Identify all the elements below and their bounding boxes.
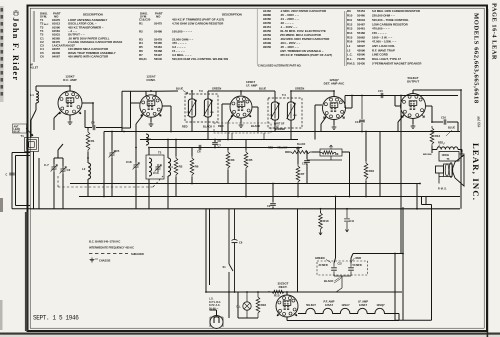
label BLACK T4 bbox=[297, 143, 306, 146]
svg-text:C16: C16 bbox=[441, 116, 446, 120]
svg-text:R16: R16 bbox=[369, 169, 375, 173]
svg-text:90056: 90056 bbox=[263, 45, 271, 49]
svg-text:100,000 – – –: 100,000 – – – – bbox=[172, 29, 192, 33]
resistor R2 bbox=[174, 140, 183, 197]
svg-text:MODELS 662,663,665,6618: MODELS 662,663,665,6618 bbox=[473, 13, 480, 104]
resistor R1 bbox=[86, 128, 95, 159]
heater labels bbox=[306, 299, 385, 307]
svg-text:T.3: T.3 bbox=[199, 89, 203, 93]
tube V3 12SK7 I.F. AMP bbox=[230, 80, 257, 118]
wave trap coil L2 bbox=[82, 158, 91, 197]
svg-text:YELLOW: YELLOW bbox=[277, 147, 288, 150]
left page edge strip bbox=[0, 6, 4, 330]
wire avc bus y184 bbox=[70, 183, 420, 185]
legend band bbox=[89, 240, 144, 263]
svg-text:C15: C15 bbox=[378, 89, 383, 93]
label part of IF trimmer bbox=[274, 123, 285, 132]
label line voltage bbox=[209, 298, 221, 311]
wire bus y147 bbox=[150, 147, 302, 149]
electrolytic dashed box C22 C23 bbox=[315, 256, 368, 283]
svg-text:CONV.: CONV. bbox=[146, 78, 155, 82]
IF transformer T3 dashed box bbox=[185, 89, 218, 122]
label BLUE T4 bbox=[241, 87, 275, 92]
date stamp bbox=[33, 314, 79, 321]
oscillator trimmer C18 bbox=[126, 148, 139, 209]
svg-text:BLACK: BLACK bbox=[203, 125, 212, 129]
svg-text:12SA7: 12SA7 bbox=[325, 303, 334, 307]
coil L3 bbox=[146, 134, 151, 145]
svg-text:R13: R13 bbox=[435, 134, 441, 138]
svg-text:GREEN: GREEN bbox=[212, 87, 221, 91]
svg-text:TRIMMER: TRIMMER bbox=[274, 128, 285, 131]
svg-text:4,700 OHM 1/2W CARBON RESIST: 4,700 OHM 1/2W CARBON RESISTOR bbox=[172, 21, 224, 25]
wire grid v1 bbox=[54, 144, 63, 158]
svg-text:DESCRIPTION: DESCRIPTION bbox=[83, 13, 103, 17]
oscillator transformer T2 bbox=[146, 148, 164, 209]
wire bus y132 bbox=[104, 131, 460, 133]
svg-text:C14: C14 bbox=[355, 120, 360, 124]
svg-text:R2: R2 bbox=[139, 29, 143, 33]
svg-text:55486: 55486 bbox=[154, 29, 162, 33]
svg-text:RED: RED bbox=[438, 142, 443, 145]
right margin: PAGE 16-4 LEAR bbox=[491, 3, 498, 60]
svg-text:R8,21: R8,21 bbox=[139, 57, 147, 61]
harness dashed box bbox=[214, 123, 271, 140]
svg-text:L1: L1 bbox=[31, 93, 35, 97]
svg-text:55475: 55475 bbox=[154, 21, 162, 25]
chassis bus bbox=[30, 208, 460, 210]
svg-text:R6: R6 bbox=[195, 165, 199, 169]
svg-text:C5: C5 bbox=[116, 149, 120, 153]
svg-text:R15: R15 bbox=[274, 294, 280, 298]
svg-text:R2: R2 bbox=[179, 165, 183, 169]
volume control R8 bbox=[307, 145, 350, 197]
output transformer T5 bbox=[423, 142, 464, 162]
wire v4 pins bbox=[315, 91, 352, 140]
resistor R6 bbox=[190, 148, 199, 184]
wire risers mid-right bbox=[345, 96, 352, 109]
coil L1 bbox=[31, 86, 39, 110]
wire long risers x395 x403 bbox=[395, 96, 403, 321]
capacitor C15 bbox=[378, 89, 383, 98]
wire top rail det-output bbox=[345, 95, 458, 97]
svg-text:NO: NO bbox=[156, 15, 161, 19]
wire antenna left drop bbox=[38, 158, 40, 209]
svg-text:RED: RED bbox=[356, 256, 362, 260]
wire v1 pins bbox=[36, 86, 93, 130]
label BLACK T3 bbox=[203, 125, 212, 129]
svg-text:T2: T2 bbox=[158, 151, 162, 155]
svg-text:L2: L2 bbox=[82, 167, 86, 171]
svg-text:C9: C9 bbox=[267, 204, 271, 208]
svg-text:GREEN: GREEN bbox=[315, 256, 325, 260]
svg-text:ALLET: ALLET bbox=[30, 67, 39, 70]
label RED T3 bbox=[182, 125, 188, 129]
svg-text:RED: RED bbox=[218, 124, 224, 128]
speaker P.M.S. bbox=[436, 155, 465, 191]
tube V1 12SK7 R.F. AMP bbox=[58, 74, 82, 115]
resistor R3 bbox=[226, 148, 235, 184]
AC line pair bbox=[206, 209, 210, 292]
right margin: LEAR, INC. bbox=[471, 143, 481, 201]
svg-text:5″PERMANENT MAGNET SPEAKER: 5″PERMANENT MAGNET SPEAKER bbox=[372, 61, 422, 65]
svg-text:D.L.: D.L. bbox=[237, 306, 242, 309]
svg-text:INTERMEDIATE FREQUENCY 455 K: INTERMEDIATE FREQUENCY 455 KC bbox=[89, 246, 134, 250]
svg-text:56040: 56040 bbox=[154, 57, 162, 61]
svg-text:R1: R1 bbox=[91, 139, 95, 143]
resistor R15 bbox=[268, 290, 286, 297]
svg-text:C6: C6 bbox=[40, 55, 44, 59]
power plug bbox=[210, 316, 223, 329]
wire b- loop right bbox=[395, 197, 432, 321]
svg-text:2 GANG VARIABLE CAPACITOR W/AD: 2 GANG VARIABLE CAPACITOR W/ADJ bbox=[68, 40, 123, 44]
wire left exit loop bbox=[12, 153, 30, 209]
variable capacitor C1 bbox=[44, 158, 57, 209]
T3 secondary coil bbox=[204, 91, 213, 140]
loop antenna T1 bbox=[21, 110, 39, 209]
parts list table bbox=[30, 9, 422, 70]
svg-text:C7: C7 bbox=[218, 144, 222, 148]
svg-text:BLACK: BLACK bbox=[251, 124, 260, 128]
svg-text:*C INCLUDED ALTERNATE PART NO.: *C INCLUDED ALTERNATE PART NO. bbox=[257, 65, 302, 68]
dashed gang line bbox=[58, 176, 163, 187]
svg-text:R10: R10 bbox=[323, 219, 329, 223]
resistor R10 below bus bbox=[319, 209, 329, 235]
T4 primary coil bbox=[271, 91, 280, 132]
svg-text:I.F. AMP: I.F. AMP bbox=[246, 83, 257, 87]
svg-text:P.F. AMP: P.F. AMP bbox=[324, 299, 335, 303]
capacitor C9 bbox=[267, 184, 276, 209]
svg-text:BROWN: BROWN bbox=[423, 154, 432, 156]
tube V6 rectifier socket bbox=[276, 292, 298, 321]
wire right risers bbox=[380, 132, 417, 209]
svg-text:R16: R16 bbox=[261, 303, 267, 307]
svg-text:C4: C4 bbox=[91, 121, 95, 125]
capacitor C8 bbox=[212, 139, 221, 148]
svg-text:I.F. AMP: I.F. AMP bbox=[358, 299, 368, 303]
resistor R13 bbox=[430, 126, 440, 146]
right page rule bbox=[487, 9, 489, 337]
label GREEN T4 bbox=[291, 87, 334, 97]
svg-text:B.C. BAND 540−1750 KC: B.C. BAND 540−1750 KC bbox=[89, 240, 120, 244]
svg-text:12SK7: 12SK7 bbox=[359, 303, 368, 307]
svg-text:455 KC IF TRIMMERS (PART OF A1: 455 KC IF TRIMMERS (PART OF A127) bbox=[280, 53, 332, 57]
svg-text:P.M.S.: P.M.S. bbox=[347, 61, 355, 65]
svg-text:30 MFD: 30 MFD bbox=[319, 263, 328, 267]
svg-text:R5: R5 bbox=[249, 158, 253, 162]
coil L4 bbox=[168, 140, 173, 209]
svg-text:BLUE: BLUE bbox=[259, 87, 266, 91]
svg-text:BLUE: BLUE bbox=[14, 131, 21, 134]
wire rectifier B+ riser bbox=[297, 209, 299, 292]
capacitor on left loop bbox=[6, 173, 15, 176]
svg-text:SHIELDED: SHIELDED bbox=[131, 252, 144, 256]
svg-text:BLACK: BLACK bbox=[324, 279, 333, 283]
svg-text:C11: C11 bbox=[350, 219, 355, 223]
T4 secondary coil bbox=[287, 91, 296, 140]
capacitor C16 bbox=[432, 116, 458, 132]
svg-text:T.4: T.4 bbox=[282, 93, 286, 97]
capacitor C14 bbox=[355, 96, 365, 132]
svg-text:50L6GT: 50L6GT bbox=[306, 303, 316, 307]
capacitor C4 bbox=[85, 110, 122, 132]
variable capacitor C2 bbox=[60, 158, 71, 209]
wire v5 pins bbox=[395, 90, 461, 209]
wire b+ bus y197 bbox=[79, 196, 460, 198]
svg-text:C2: C2 bbox=[67, 168, 71, 172]
grid cap C6 bbox=[197, 145, 201, 154]
wave trap trimmer C5 bbox=[109, 132, 120, 197]
svg-text:T1: T1 bbox=[21, 134, 25, 138]
resistor R16b bbox=[256, 292, 266, 318]
svg-text:C18: C18 bbox=[126, 160, 132, 164]
svg-text:C6: C6 bbox=[197, 150, 201, 154]
label RED YELLOW bbox=[268, 147, 288, 150]
heater chain bbox=[298, 308, 399, 313]
wire green T3 to V3 bbox=[208, 91, 241, 95]
capacitor C11 bbox=[344, 209, 354, 232]
svg-text:and 664: and 664 bbox=[477, 116, 481, 128]
label BLUE T3 bbox=[176, 87, 188, 94]
wire v3 pins bbox=[222, 104, 258, 140]
resistor R5 bbox=[244, 140, 253, 197]
power box wiring bbox=[206, 292, 402, 318]
svg-text:DESCRIPTION: DESCRIPTION bbox=[222, 13, 242, 17]
IF transformer T4 dashed box bbox=[268, 93, 302, 128]
svg-text:12SA7: 12SA7 bbox=[341, 303, 350, 307]
svg-text:RED: RED bbox=[268, 147, 273, 150]
svg-text:C-7: C-7 bbox=[44, 163, 49, 167]
resistor R7 bbox=[296, 148, 305, 197]
capacitor C10 bbox=[302, 152, 310, 184]
svg-text:R8: R8 bbox=[335, 152, 339, 156]
svg-text:ALC→: ALC→ bbox=[44, 23, 51, 26]
svg-text:RECT.: RECT. bbox=[279, 285, 288, 289]
svg-text:CHASSIS: CHASSIS bbox=[99, 259, 111, 263]
svg-text:53430: 53430 bbox=[357, 61, 365, 65]
svg-text:1000Ω: 1000Ω bbox=[442, 154, 449, 157]
label GREEN T3 bbox=[212, 87, 221, 91]
svg-text:SEPT. 1 5 1946: SEPT. 1 5 1946 bbox=[33, 314, 79, 321]
wire bus y140 bbox=[140, 139, 298, 141]
svg-text:BLUE: BLUE bbox=[176, 87, 183, 91]
svg-text:12SQ7: 12SQ7 bbox=[376, 303, 385, 307]
svg-text:OUTPUT: OUTPUT bbox=[407, 79, 420, 83]
svg-text:BLUE: BLUE bbox=[448, 126, 455, 130]
bottom return wire bbox=[287, 314, 399, 321]
bottom page edge bbox=[0, 333, 500, 337]
switch S1 bbox=[223, 209, 234, 292]
svg-text:C8: C8 bbox=[218, 139, 222, 143]
wire v2 pins bbox=[122, 91, 178, 148]
svg-text:R3: R3 bbox=[231, 158, 235, 162]
svg-text:GREEN: GREEN bbox=[295, 87, 304, 91]
svg-text:400 MMFD WITH CAPACITOR: 400 MMFD WITH CAPACITOR bbox=[68, 55, 109, 59]
T3 primary coil bbox=[188, 91, 197, 132]
svg-text:DET. AMP AVC: DET. AMP AVC bbox=[324, 81, 346, 85]
svg-text:LEAR, INC.: LEAR, INC. bbox=[471, 143, 481, 201]
resistor R4 bbox=[285, 147, 320, 154]
svg-text:50 MFD: 50 MFD bbox=[353, 263, 362, 267]
tube V2 12SA7 CONV bbox=[140, 74, 162, 117]
svg-text:PAGE 16-4 LEAR: PAGE 16-4 LEAR bbox=[491, 3, 498, 60]
svg-text:S1: S1 bbox=[223, 265, 227, 269]
electrolytic capacitor C22 plates bbox=[331, 263, 354, 273]
svg-text:C22: C22 bbox=[338, 264, 343, 266]
feedthrough C6b bbox=[232, 209, 243, 292]
resistor R14 bbox=[364, 132, 374, 197]
svg-text:©John F. Rider: ©John F. Rider bbox=[11, 10, 20, 81]
antenna lead label bbox=[13, 124, 34, 136]
dashed gang to trimmer bbox=[111, 162, 113, 187]
electrolytic wiring bbox=[334, 197, 403, 293]
svg-text:C6: C6 bbox=[239, 241, 243, 245]
rectifier label bbox=[277, 281, 288, 289]
svg-text:R.C. AMP: R.C. AMP bbox=[63, 78, 76, 82]
svg-text:P. M. S.: P. M. S. bbox=[438, 188, 447, 191]
tube V4 12SQ7 DET.AMP.AVC bbox=[323, 78, 346, 120]
svg-text:RED: RED bbox=[182, 125, 188, 129]
left frame shadow bbox=[25, 212, 28, 331]
svg-text:C: C bbox=[6, 174, 8, 177]
dial light DL bbox=[237, 292, 252, 318]
label RED/BLUE output bbox=[446, 126, 455, 137]
svg-text:C13: C13 bbox=[153, 171, 159, 175]
copyright John F. Rider (left margin, vertical) bbox=[11, 10, 20, 81]
svg-text:R1: R1 bbox=[139, 21, 143, 25]
tube V5 50L6GT OUTPUT bbox=[401, 76, 426, 119]
right margin: MODELS 662,663,665,6618 bbox=[473, 13, 481, 128]
wire v1 plate riser bbox=[103, 132, 105, 197]
svg-text:R7: R7 bbox=[301, 172, 305, 176]
svg-text:500,000 OHM VOL.CONTROL W/LINE: 500,000 OHM VOL.CONTROL W/LINE SW bbox=[172, 57, 228, 61]
svg-text:94067: 94067 bbox=[52, 55, 60, 59]
